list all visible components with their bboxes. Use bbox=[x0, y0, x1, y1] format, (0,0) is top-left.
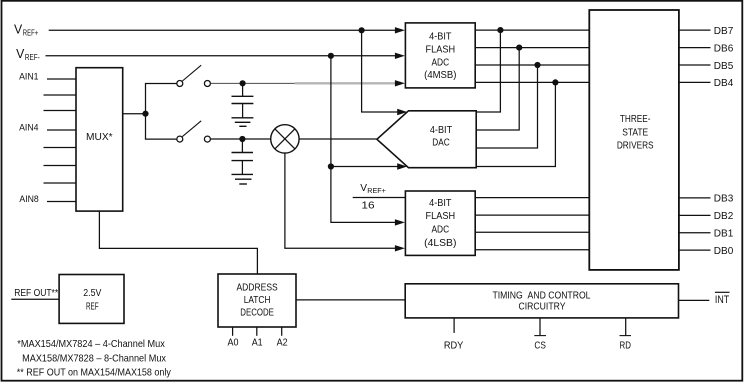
node CS label (overline) bbox=[534, 336, 546, 352]
wire MSB bit 4 down to DAC input bbox=[476, 82, 555, 166]
wire VREF- vertical dropper bbox=[331, 56, 395, 223]
wire subtractor to DAC tip bbox=[299, 138, 377, 140]
wire RDY stub bbox=[453, 318, 455, 333]
wire output stub DB6 bbox=[679, 47, 711, 49]
wire to top switch bbox=[145, 83, 177, 85]
label 4LSB ADC bbox=[424, 198, 456, 249]
svg-text:(4MSB): (4MSB) bbox=[424, 70, 456, 81]
svg-text:V: V bbox=[14, 23, 23, 37]
svg-text:CS: CS bbox=[534, 339, 546, 351]
svg-text:AIN1: AIN1 bbox=[19, 72, 38, 83]
svg-text:REF OUT**: REF OUT** bbox=[14, 288, 58, 299]
junction hold cap C2 bbox=[239, 136, 245, 142]
svg-text:THREE-: THREE- bbox=[620, 114, 651, 125]
capacitor C2 bbox=[232, 139, 254, 174]
wire 4LSB ADC output bit 4 bbox=[475, 249, 589, 251]
label ADDRESS LATCH DECODE bbox=[236, 283, 278, 319]
wire output stub DB1 bbox=[679, 232, 711, 234]
svg-text:LATCH: LATCH bbox=[244, 295, 271, 306]
svg-text:DRIVERS: DRIVERS bbox=[617, 141, 654, 152]
2.5V reference U8 box bbox=[59, 275, 124, 324]
summing node (subtractor) bbox=[271, 125, 299, 153]
label VREF+/16 bbox=[360, 183, 386, 211]
wire 4MSB ADC output bit 2 bbox=[475, 47, 589, 49]
svg-text:DECODE: DECODE bbox=[240, 307, 274, 318]
label THREE-STATE DRIVERS bbox=[617, 114, 654, 152]
wire S1 output (gray) bbox=[295, 82, 396, 84]
wire 4MSB ADC output bit 3 bbox=[475, 64, 589, 66]
svg-text:DB5: DB5 bbox=[714, 60, 734, 72]
svg-text:A1: A1 bbox=[252, 337, 263, 349]
junction MSB bit 2 to DAC bbox=[516, 45, 522, 51]
svg-text:ADC: ADC bbox=[431, 57, 449, 68]
svg-text:TIMING AND CONTROL: TIMING AND CONTROL bbox=[493, 290, 591, 301]
wire output stub DB4 bbox=[679, 81, 711, 83]
switch S2 lever bbox=[182, 121, 201, 137]
wire REF OUT bbox=[11, 298, 59, 300]
svg-text:ADDRESS: ADDRESS bbox=[236, 283, 278, 294]
svg-text:AIN8: AIN8 bbox=[19, 194, 38, 205]
wire subtractor down to 4LSB ADC bbox=[285, 153, 395, 248]
svg-text:** REF OUT on MAX154/MAX158 on: ** REF OUT on MAX154/MAX158 only bbox=[17, 367, 172, 379]
wire output stub DB2 bbox=[679, 214, 711, 216]
node VREF+ label bbox=[14, 23, 38, 38]
label 2.5V REF bbox=[83, 288, 101, 312]
wire AIN input stub 5 bbox=[44, 147, 77, 149]
wire AIN input stub 2 bbox=[44, 94, 77, 96]
junction MSB bit 1 to DAC bbox=[497, 27, 503, 33]
arrowhead into 4LSB ADC input 3 bbox=[395, 245, 405, 251]
svg-text:16: 16 bbox=[361, 200, 375, 211]
wire INT output bbox=[679, 299, 710, 301]
node RD label (overline) bbox=[620, 336, 632, 352]
wire AIN input stub 6 bbox=[44, 165, 77, 167]
label 4MSB ADC bbox=[424, 32, 456, 81]
junction MSB bit 4 to DAC bbox=[552, 79, 558, 85]
4-bit flash ADC (4MSB) U2 box bbox=[405, 23, 475, 88]
wire A2 stub bbox=[281, 327, 283, 336]
svg-text:REF: REF bbox=[86, 301, 99, 312]
svg-text:A2: A2 bbox=[277, 337, 288, 349]
mux U1 box bbox=[76, 68, 123, 211]
wire VREF- rail bbox=[46, 55, 396, 57]
svg-text:(4LSB): (4LSB) bbox=[424, 238, 456, 249]
arrowhead VREF- into 4MSB ADC bbox=[395, 53, 405, 59]
svg-text:DB7: DB7 bbox=[714, 25, 734, 37]
wire to bottom switch bbox=[145, 138, 177, 140]
svg-text:FLASH: FLASH bbox=[426, 211, 456, 222]
wire output stub DB0 bbox=[679, 249, 711, 251]
wire AIN input stub 3 bbox=[44, 110, 77, 112]
label DAC bbox=[430, 125, 452, 149]
svg-text:4-BIT: 4-BIT bbox=[429, 32, 451, 43]
svg-text:RDY: RDY bbox=[444, 340, 464, 352]
svg-text:V: V bbox=[16, 47, 25, 61]
wire VREF+ to DAC top bbox=[362, 30, 398, 112]
arrowhead into DAC top bbox=[397, 109, 407, 115]
node VREF- label bbox=[16, 47, 40, 62]
wire switch feed vertical bbox=[145, 84, 147, 140]
three-state drivers U5 box bbox=[589, 10, 679, 270]
wire MUX to address latch bbox=[99, 211, 257, 274]
svg-text:MUX*: MUX* bbox=[86, 132, 113, 143]
svg-text:INT: INT bbox=[715, 294, 730, 306]
wire output stub DB7 bbox=[679, 29, 711, 31]
DAC U3 (4-bit) bbox=[377, 111, 476, 168]
switch S1 left contact bbox=[177, 81, 183, 87]
wire 4MSB ADC output bit 4 bbox=[475, 81, 589, 83]
wire VREF+ rail bbox=[49, 29, 395, 31]
svg-text:4-BIT: 4-BIT bbox=[429, 198, 451, 209]
svg-text:DB2: DB2 bbox=[714, 210, 734, 222]
wire output stub DB3 bbox=[679, 197, 711, 199]
switch S2 left contact bbox=[177, 136, 183, 142]
switch S1 lever bbox=[182, 65, 201, 81]
svg-text:*MAX154/MX7824 – 4-Channel Mux: *MAX154/MX7824 – 4-Channel Mux bbox=[17, 338, 165, 350]
wire MSB bit 2 down to DAC input bbox=[476, 48, 519, 130]
wire 4LSB ADC output bit 3 bbox=[475, 231, 589, 233]
wire MUX output bbox=[123, 113, 146, 115]
wire S2 output bbox=[211, 138, 271, 140]
wire 4LSB ADC output bit 1 bbox=[475, 197, 589, 199]
wire A0 stub bbox=[232, 327, 234, 336]
arrowhead VREF+ into 4MSB ADC bbox=[395, 27, 405, 33]
svg-text:A0: A0 bbox=[228, 337, 239, 349]
svg-text:2.5V: 2.5V bbox=[83, 288, 101, 299]
svg-text:AIN4: AIN4 bbox=[19, 123, 38, 134]
switch S1 right contact bbox=[204, 81, 210, 87]
4-bit flash ADC (4LSB) U4 box bbox=[405, 191, 475, 255]
svg-text:DB0: DB0 bbox=[714, 245, 734, 257]
wire output stub DB5 bbox=[679, 64, 711, 66]
address latch decode U6 box bbox=[218, 274, 296, 327]
arrowhead into 4LSB ADC input 2 bbox=[395, 219, 405, 225]
ground below C2 bbox=[232, 174, 254, 184]
wire AIN input stub 4 bbox=[47, 129, 76, 131]
svg-text:DB3: DB3 bbox=[714, 193, 734, 205]
arrowhead into 4MSB ADC input 3 bbox=[395, 80, 405, 86]
svg-text:ADC: ADC bbox=[431, 225, 449, 236]
svg-text:DB1: DB1 bbox=[714, 228, 734, 240]
wire 4LSB ADC output bit 2 bbox=[475, 214, 589, 216]
svg-text:DB6: DB6 bbox=[714, 42, 734, 54]
wire MSB bit 3 down to DAC input bbox=[476, 65, 537, 148]
junction on VREF- rail bbox=[328, 53, 334, 59]
svg-text:DAC: DAC bbox=[432, 137, 450, 148]
svg-text:FLASH: FLASH bbox=[426, 45, 456, 56]
arrowhead into DAC bottom bbox=[397, 163, 407, 169]
wire address latch to timing block bbox=[296, 299, 405, 301]
wire AIN input stub 7 bbox=[44, 182, 77, 184]
capacitor C1 bbox=[232, 83, 254, 118]
junction DAC bottom ref bbox=[328, 163, 334, 169]
node INT label (overline) bbox=[715, 292, 730, 306]
switch S2 right contact bbox=[204, 136, 210, 142]
svg-text:DB4: DB4 bbox=[714, 77, 734, 89]
svg-text:MAX158/MX7828 – 8-Channel Mux: MAX158/MX7828 – 8-Channel Mux bbox=[22, 353, 167, 365]
wire S1 output (dark thin) bbox=[211, 82, 295, 84]
junction MUX output bbox=[142, 111, 148, 117]
svg-text:REF+: REF+ bbox=[23, 29, 39, 38]
wire MSB bit 1 down to DAC input bbox=[476, 30, 500, 112]
ground below C1 bbox=[232, 118, 254, 127]
wire AIN input stub 8 bbox=[47, 201, 76, 203]
svg-text:CIRCUITRY: CIRCUITRY bbox=[519, 302, 566, 313]
junction on VREF+ rail bbox=[359, 27, 365, 33]
svg-text:REF-: REF- bbox=[25, 53, 40, 62]
wire AIN input stub 1 bbox=[47, 78, 76, 80]
wire RD stub bbox=[625, 318, 627, 336]
svg-text:4-BIT: 4-BIT bbox=[430, 125, 452, 136]
wire VREF- to DAC bottom bbox=[331, 166, 398, 168]
svg-text:REF+: REF+ bbox=[367, 188, 386, 195]
junction hold cap C1 bbox=[240, 80, 246, 86]
svg-text:STATE: STATE bbox=[622, 128, 648, 139]
timing and control circuitry U7 box bbox=[405, 284, 678, 318]
label TIMING AND CONTROL CIRCUITRY bbox=[493, 290, 591, 312]
svg-text:V: V bbox=[360, 183, 367, 194]
wire fraction bar into 4LSB ADC bbox=[353, 197, 406, 199]
svg-text:RD: RD bbox=[620, 339, 632, 351]
wire 4MSB ADC output bit 1 bbox=[475, 29, 589, 31]
wire A1 stub bbox=[256, 327, 258, 336]
junction MSB bit 3 to DAC bbox=[534, 62, 540, 68]
wire CS stub bbox=[539, 318, 541, 336]
